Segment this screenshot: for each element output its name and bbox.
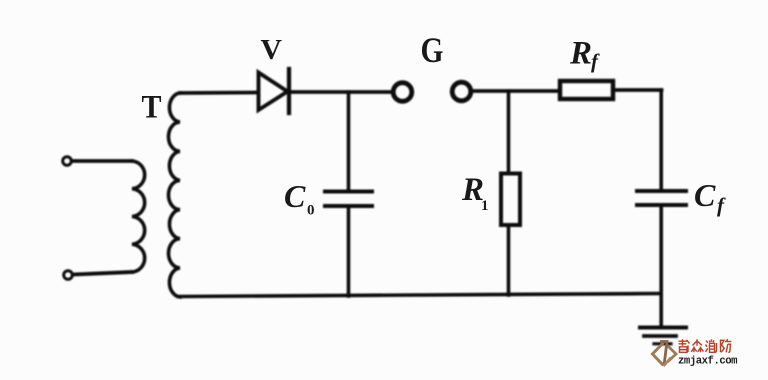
svg-text:1: 1: [481, 198, 489, 214]
svg-text:G: G: [421, 30, 444, 70]
svg-text:T: T: [142, 90, 162, 126]
svg-text:0: 0: [307, 203, 315, 219]
svg-text:C: C: [284, 178, 306, 214]
svg-text:zmjaxf.com: zmjaxf.com: [678, 356, 737, 368]
svg-text:C: C: [694, 177, 716, 213]
svg-text:R: R: [569, 36, 592, 72]
svg-text:V: V: [261, 35, 283, 66]
